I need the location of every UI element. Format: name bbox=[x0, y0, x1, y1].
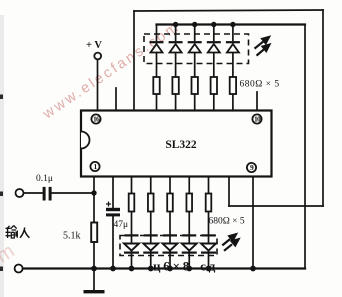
pin label 1 bbox=[90, 162, 99, 171]
LED cathode bar bbox=[169, 41, 183, 43]
wire bus to LED bbox=[213, 25, 215, 42]
input terminal bottom bbox=[15, 265, 23, 273]
wire outer loop right vertical bbox=[322, 10, 324, 206]
LED triangle bbox=[151, 44, 163, 53]
LED triangle bbox=[182, 244, 197, 251]
wire LED to ground bus bbox=[131, 251, 133, 269]
LED anode bar bbox=[202, 234, 216, 236]
wire resistor to IC pin bbox=[156, 94, 158, 111]
wire LED to ground bus bbox=[150, 251, 152, 269]
wire resistor to LED bbox=[188, 212, 190, 244]
LED anode bar bbox=[163, 234, 177, 236]
resistor 680 ohm bbox=[129, 194, 135, 212]
resistor+LED column B3 bbox=[163, 176, 178, 269]
LED cathode bar bbox=[150, 41, 164, 43]
pin label 10 bbox=[252, 114, 261, 123]
wire LED to resistor bbox=[175, 53, 177, 78]
junction dots top bus bbox=[173, 22, 236, 27]
LED D4 column bbox=[207, 25, 221, 112]
wire pin1 column lower to bus bbox=[93, 242, 95, 269]
resistor 680 ohm bbox=[167, 194, 173, 212]
wire pin9 vertical drop bbox=[228, 176, 230, 206]
svg-text:0.1μ: 0.1μ bbox=[36, 174, 53, 184]
bottom LED column group (5 LEDs with resistors) bbox=[124, 176, 216, 269]
LED triangle bbox=[227, 44, 239, 53]
resistor 680 ohm bbox=[230, 77, 236, 94]
wire resistor to LED bbox=[131, 212, 133, 244]
LED cathode bar bbox=[182, 252, 197, 254]
wire IC pin to resistor bbox=[169, 176, 171, 194]
wire ground bus bottom bbox=[22, 267, 305, 269]
watermark www.elecfans.com bbox=[0, 19, 183, 277]
wire IC pin to resistor bbox=[188, 176, 190, 194]
wire resistor to IC pin bbox=[175, 94, 177, 111]
wire 47u column upper bbox=[112, 176, 114, 208]
LED triangle bbox=[208, 44, 220, 53]
wire resistor to LED bbox=[208, 212, 210, 244]
label input (hand drawn CJK shu-ru) bbox=[6, 226, 30, 239]
LED cathode bar bbox=[163, 252, 178, 254]
LED triangle bbox=[124, 244, 139, 251]
wire bus to LED bbox=[194, 25, 196, 42]
wire IC pin to ground bus right bbox=[252, 176, 254, 269]
LED D1 column bbox=[150, 25, 164, 112]
wire pin1 column upper bbox=[93, 176, 95, 223]
resistor 680 ohm bbox=[148, 194, 154, 212]
wire stub above pin10 bbox=[256, 92, 258, 111]
LED triangle bbox=[163, 244, 178, 251]
wire bus to LED bbox=[232, 25, 234, 42]
svg-text:47μ: 47μ bbox=[114, 220, 129, 230]
wire LED to resistor bbox=[194, 53, 196, 78]
junction dot input node bbox=[91, 190, 96, 195]
wire IC pin to resistor bbox=[131, 176, 133, 194]
LED anode bar bbox=[144, 234, 158, 236]
input terminal top bbox=[16, 189, 24, 197]
resistor+LED column B2 bbox=[143, 176, 158, 269]
resistor+LED column B5 bbox=[201, 176, 216, 269]
svg-text:680Ω × 5: 680Ω × 5 bbox=[240, 80, 280, 90]
capacitor C1 0.1u plates bbox=[36, 174, 53, 201]
bottom LED dashed box bbox=[120, 236, 217, 256]
capacitor C2 47u electrolytic bbox=[106, 202, 128, 231]
LED cathode bar bbox=[188, 41, 202, 43]
wire resistor to IC pin bbox=[232, 94, 234, 111]
wire IC pin to resistor bbox=[208, 176, 210, 194]
resistor 680 ohm bbox=[211, 77, 217, 94]
wire IC pin to resistor bbox=[150, 176, 152, 194]
LED anode bar bbox=[182, 234, 196, 236]
svg-text:10: 10 bbox=[254, 115, 261, 124]
light emission arrows top bbox=[255, 37, 270, 56]
wire LED to resistor bbox=[156, 53, 158, 78]
svg-text:16: 16 bbox=[93, 115, 100, 124]
resistor 680 ohm bbox=[192, 77, 198, 94]
top LED column group (5 LEDs D1-D5 with 680ohm resistors) bbox=[150, 25, 240, 112]
wire LED anode bus bbox=[157, 23, 306, 25]
LED D2 column bbox=[169, 25, 183, 112]
resistor 680 ohm bbox=[186, 194, 192, 212]
+V supply terminal bbox=[86, 40, 102, 59]
LED cathode bar bbox=[143, 252, 158, 254]
IC U1 SL322 body bbox=[81, 111, 272, 177]
LED triangle bbox=[143, 244, 158, 251]
LED cathode bar bbox=[226, 41, 240, 43]
LED D5 column bbox=[226, 25, 240, 112]
resistor+LED column B4 bbox=[182, 176, 197, 269]
resistor 680 ohm bbox=[153, 77, 159, 94]
LED cathode bar bbox=[207, 41, 221, 43]
wire resistor to LED bbox=[169, 212, 171, 244]
svg-text:+ V: + V bbox=[86, 40, 102, 51]
LED triangle bbox=[170, 44, 182, 53]
top LED dashed box bbox=[144, 34, 249, 64]
wire LED to resistor bbox=[232, 53, 234, 78]
pin label 16 bbox=[91, 114, 100, 123]
LED triangle bbox=[201, 244, 216, 251]
LED triangle bbox=[189, 44, 201, 53]
wire inner right vertical bbox=[304, 25, 306, 269]
wire bus to LED bbox=[175, 25, 177, 42]
wire outer loop left vertical to IC top bbox=[133, 11, 135, 111]
pin label 9 bbox=[247, 163, 256, 172]
wire resistor to IC pin bbox=[194, 94, 196, 111]
wire stub above IC left bbox=[115, 88, 117, 111]
LED cathode bar bbox=[201, 252, 216, 254]
LED cathode bar bbox=[124, 252, 139, 254]
wire LED to ground bus bbox=[188, 251, 190, 269]
wire LED to resistor bbox=[213, 53, 215, 78]
resistor R1 5.1k bbox=[63, 223, 97, 243]
scan edge marks bbox=[0, 95, 3, 272]
resistor+LED column B1 bbox=[124, 176, 139, 269]
svg-text:5.1k: 5.1k bbox=[63, 231, 81, 242]
wire input coupling right bbox=[52, 192, 94, 194]
wire LED to ground bus bbox=[208, 251, 210, 269]
resistor 680 ohm bbox=[172, 77, 178, 94]
wire resistor to IC pin bbox=[213, 94, 215, 111]
LED anode bar bbox=[125, 234, 139, 236]
wire ground stem bbox=[93, 269, 95, 291]
wire bus to LED bbox=[156, 25, 158, 42]
light emission arrows bottom bbox=[222, 234, 238, 251]
LED D3 column bbox=[188, 25, 202, 112]
svg-text:SL322: SL322 bbox=[165, 139, 197, 151]
wire outer loop top horizontal bbox=[134, 10, 323, 11]
ground symbol bbox=[84, 290, 105, 293]
wire 47u column lower bbox=[112, 216, 114, 269]
wire resistor to LED bbox=[150, 212, 152, 244]
svg-text:680Ω × 5: 680Ω × 5 bbox=[209, 217, 245, 227]
wire LED to ground bus bbox=[169, 251, 171, 269]
wire input coupling left bbox=[23, 192, 42, 194]
wire pin9 horizontal bbox=[229, 205, 323, 207]
junction dots ground bus bbox=[91, 266, 256, 272]
wire +V to pin16 bbox=[97, 60, 99, 112]
resistor 680 ohm bbox=[206, 194, 212, 212]
